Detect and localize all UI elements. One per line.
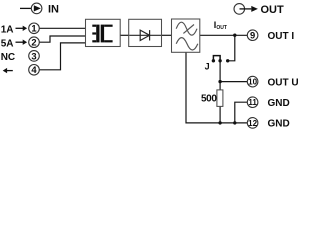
svg-text:GND: GND xyxy=(268,119,290,130)
svg-text:4: 4 xyxy=(31,64,37,75)
svg-text:12: 12 xyxy=(248,119,257,128)
svg-text:GND: GND xyxy=(268,98,290,109)
svg-text:OUT: OUT xyxy=(216,25,227,31)
svg-text:10: 10 xyxy=(248,78,257,87)
svg-text:2: 2 xyxy=(31,37,36,48)
svg-text:NC: NC xyxy=(1,52,15,63)
svg-text:1: 1 xyxy=(31,23,36,34)
svg-text:11: 11 xyxy=(248,98,257,107)
svg-text:1A: 1A xyxy=(1,25,14,36)
svg-text:IN: IN xyxy=(48,4,59,16)
svg-text:500: 500 xyxy=(201,93,217,104)
svg-text:OUT I: OUT I xyxy=(268,31,295,42)
svg-text:OUT: OUT xyxy=(261,4,285,16)
svg-text:9: 9 xyxy=(250,30,255,41)
svg-text:J: J xyxy=(205,62,210,72)
svg-text:OUT U: OUT U xyxy=(268,77,299,88)
svg-text:3: 3 xyxy=(31,50,36,61)
svg-text:5A: 5A xyxy=(1,39,14,50)
